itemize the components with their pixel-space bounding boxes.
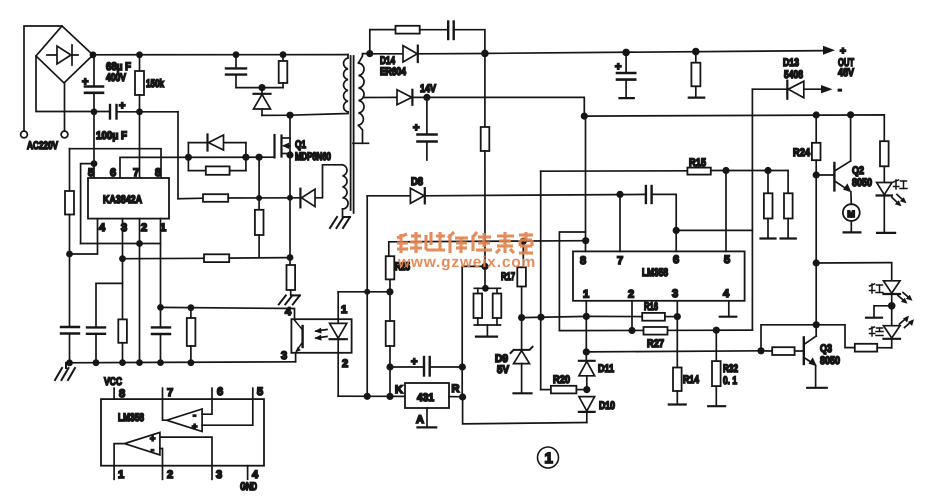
wire U3 pin3 stub (211, 466, 213, 480)
node pin6 branch (673, 227, 680, 234)
transformer primary winding (344, 58, 348, 112)
resistor R20 (541, 386, 587, 394)
label red2 (870, 284, 884, 293)
wire U3 pin1 stub (113, 466, 115, 480)
wire R26 to K node (389, 346, 391, 396)
svg-text:R16: R16 (644, 301, 658, 313)
resistor divider a (761, 171, 776, 239)
svg-text:1: 1 (583, 289, 589, 301)
svg-text:2: 2 (167, 469, 173, 481)
transformer T1 core (351, 56, 354, 213)
wire pin3 branch to cap (96, 283, 123, 327)
arrows led green (900, 316, 915, 328)
wire bridge left vertex down to DC- rail (36, 56, 109, 112)
node HV rail 150k (136, 51, 143, 58)
node line A pin8 (582, 237, 589, 244)
diode 14V rectifier (364, 90, 412, 105)
svg-text:R: R (452, 383, 460, 395)
svg-text:+: + (840, 46, 846, 57)
capacitor at x96 (87, 327, 105, 362)
opto arrows (314, 328, 327, 341)
wire bottom ground rail (66, 362, 296, 363)
svg-text:D8: D8 (411, 176, 423, 188)
arrows led red2 (898, 293, 913, 304)
wire D8 to pin7 line (425, 194, 646, 195)
wire green resistor right (877, 347, 892, 349)
wire K rail (338, 395, 405, 397)
node Q2 collector rail (847, 111, 854, 118)
svg-text:6: 6 (110, 167, 116, 179)
motor M (843, 204, 860, 221)
node K rail x390 (386, 393, 393, 400)
wire secondary snubber up (370, 30, 396, 54)
wire opto pin1 line (338, 291, 390, 293)
svg-text:6: 6 (217, 386, 223, 398)
node x485 bottom (481, 263, 488, 270)
wire y325 left (761, 325, 816, 351)
svg-text:-: - (193, 410, 196, 420)
wire U3 pin4 stub (247, 466, 249, 480)
transistor Q1 MDP8N60 (275, 135, 291, 157)
wire U3 pin6 stub (211, 388, 213, 399)
wire secondary bottom bar (353, 142, 369, 144)
diode clamp zener (254, 88, 271, 116)
resistor green led (855, 344, 877, 352)
wire opto pin1 up (337, 292, 339, 319)
resistor secondary snubber (396, 26, 420, 34)
svg-text:D13: D13 (783, 57, 799, 69)
wire rail y258 left part (123, 257, 205, 259)
resistor q3 base (761, 347, 804, 355)
AC terminal 1 (21, 131, 28, 138)
node rail x69 (66, 359, 73, 366)
wire pin5 stub (725, 171, 727, 252)
node pin5/vcc L (91, 160, 98, 167)
diode D8 (367, 188, 425, 203)
svg-text:+: + (413, 122, 419, 134)
svg-text:AC220V: AC220V (27, 140, 58, 152)
resistor R25 (386, 256, 395, 279)
svg-text:LM358: LM358 (642, 267, 668, 279)
node K rail x367 (364, 393, 371, 400)
node current rail x259 (256, 195, 262, 201)
svg-text:6: 6 (673, 254, 679, 266)
resistor 150k (135, 55, 144, 112)
svg-text:www.gzweix.com: www.gzweix.com (397, 254, 536, 271)
svg-text:8: 8 (580, 255, 586, 267)
svg-text:8: 8 (155, 167, 161, 179)
capacitor 431 comp (390, 357, 462, 376)
node x541 y317 (537, 314, 544, 321)
node snubber junction (258, 84, 265, 91)
ic 431 shunt regulator (405, 383, 449, 408)
node rail x122 (119, 359, 126, 366)
label circled 1 (538, 447, 559, 468)
node pin2 y243 (136, 240, 143, 247)
wire y330 line (559, 329, 752, 331)
wire D10 return (463, 397, 587, 424)
node rail x191 (188, 359, 195, 366)
svg-text:+: + (192, 422, 197, 432)
node R32 top (713, 327, 720, 334)
wire snubber mid (420, 29, 449, 31)
node red2 green junction (888, 302, 896, 310)
wire snubber right down (454, 30, 485, 54)
node pin5 top (722, 167, 729, 174)
node vcc rail R24 (813, 111, 820, 118)
wire cap to pin6 (652, 194, 677, 251)
capacitor output filter (617, 52, 635, 98)
wire current rail right (228, 197, 300, 199)
wire opto pin2 down (337, 353, 339, 396)
diode D11 (579, 361, 595, 390)
wire junction stub ground (866, 306, 892, 318)
svg-text:2: 2 (628, 288, 634, 300)
svg-text:100μ F: 100μ F (96, 130, 127, 142)
node main out rail left (481, 50, 489, 58)
wire pin3 stub (676, 301, 678, 368)
wire x541 vertical (540, 171, 542, 389)
svg-text:2: 2 (342, 358, 348, 370)
node snubber cap rail (233, 51, 240, 58)
node bridge+ (90, 51, 97, 58)
capacitor at x160 (152, 327, 170, 362)
wire feedback top (315, 165, 342, 198)
diode feedback rectifier (300, 189, 315, 208)
resistor on pin3 line (118, 283, 127, 362)
svg-text:400V: 400V (106, 72, 127, 84)
svg-text:4: 4 (252, 469, 259, 481)
resistor R16 (586, 313, 677, 321)
resistor gate-source divider x259 (255, 157, 264, 257)
wire pin7 vertical (139, 112, 141, 178)
diode D14 ER604 (370, 46, 485, 62)
op-amp U3a (163, 399, 253, 431)
node parallel pair top (482, 285, 489, 292)
diode D9 5V zener (511, 318, 533, 394)
led red2 (884, 281, 901, 326)
resistor R15 (541, 168, 788, 175)
wire R25 to R26 (389, 279, 391, 321)
svg-text:ER604: ER604 (380, 66, 407, 78)
svg-text:GND: GND (240, 481, 257, 493)
resistor current rail (203, 194, 228, 202)
svg-text:KA3842A: KA3842A (103, 194, 142, 206)
wire motor ground (844, 221, 861, 232)
svg-text:4: 4 (285, 306, 292, 318)
svg-text:+: + (615, 61, 621, 73)
node D11 top line (583, 348, 590, 355)
wire bridge bottom vertex to AC terminal 2 (64, 83, 66, 131)
wire KA pin1 stub down (160, 219, 162, 327)
svg-text:D10: D10 (599, 400, 615, 412)
node Q1 drain (286, 112, 293, 119)
wire pin5 vertical (93, 112, 95, 178)
svg-text:5V: 5V (497, 364, 510, 376)
resistor snubber x283 (262, 55, 287, 88)
node 14V cap (423, 94, 430, 101)
resistor R24 (812, 115, 821, 175)
resistor feed x485 (481, 53, 490, 288)
svg-text:VCC: VCC (104, 376, 122, 388)
ground Q1 source (279, 295, 300, 304)
svg-text:LM358: LM358 (118, 412, 144, 424)
node D10 D11 R20 (583, 386, 590, 393)
svg-text:0. 1: 0. 1 (723, 375, 737, 387)
svg-text:D11: D11 (598, 363, 614, 375)
node 431 R pin (459, 393, 466, 400)
arrow out plus (823, 46, 835, 55)
op-amp U3b (114, 432, 212, 465)
resistor R32 (708, 330, 725, 406)
wire drain rail to primary bottom (262, 112, 348, 115)
svg-text:5: 5 (257, 386, 263, 398)
node sample vertical (364, 289, 370, 295)
wire Q2 collector up (850, 115, 852, 161)
svg-text:Q2: Q2 (852, 165, 864, 177)
transformer secondary winding (359, 63, 365, 125)
svg-text:+: + (150, 434, 155, 444)
svg-text:R20: R20 (553, 374, 570, 386)
arrows led red1 (892, 195, 907, 207)
svg-text:8050: 8050 (820, 355, 840, 367)
svg-text:A: A (416, 414, 424, 426)
node opto feed (386, 288, 393, 295)
wire sample vertical x367 (366, 196, 368, 396)
led green (884, 326, 901, 348)
capacitor secondary snubber (448, 22, 454, 40)
transformer feedback winding (343, 165, 349, 209)
node gate divider top (256, 154, 263, 161)
svg-text:+: + (119, 100, 125, 112)
resistor source sense (287, 265, 296, 295)
capacitor feedback pin6 (646, 186, 652, 203)
wire pin1 stub chain (585, 301, 587, 361)
svg-text:7: 7 (617, 255, 623, 267)
svg-text:-: - (838, 84, 842, 96)
node out bleeder (692, 48, 700, 56)
wire pin8 branch left (559, 232, 585, 331)
wire pin7 stub (619, 194, 621, 251)
svg-text:MDP8N60: MDP8N60 (295, 151, 331, 163)
resistor pair parallel (474, 288, 502, 336)
svg-text:3: 3 (281, 350, 287, 362)
resistor divider b (781, 171, 796, 239)
node pin7 (616, 191, 623, 198)
svg-text:+: + (411, 356, 417, 368)
node pin1 y316 (583, 313, 590, 320)
svg-text:5: 5 (88, 167, 94, 179)
svg-text:-: - (151, 445, 154, 455)
resistor R17 (517, 241, 526, 317)
diode D13 5408 (752, 81, 822, 99)
svg-text:2: 2 (141, 222, 147, 234)
svg-text:431: 431 (417, 392, 434, 404)
ic opto coupler (291, 319, 351, 353)
wire primary top (347, 55, 349, 58)
wire bridge top vertex to AC terminal 1 (24, 26, 62, 131)
node secondary top (366, 50, 373, 57)
node pin3 R16 (674, 313, 681, 320)
node out cap (622, 49, 630, 57)
wire pin8 feed y148.7 (70, 149, 162, 178)
wire pin6 to D13 drop (676, 229, 752, 231)
svg-text:R27: R27 (647, 338, 664, 350)
wire 431 A pin (418, 408, 437, 427)
resistor red led1 (880, 141, 889, 182)
ic KA3842A (88, 178, 169, 219)
bridge rectifier (36, 26, 93, 83)
svg-text:3: 3 (216, 469, 222, 481)
wire pin8 supply vertical (585, 116, 587, 251)
wire KA pin3 stub (122, 219, 124, 284)
wire DC- rail right of C2 (117, 111, 178, 113)
resistor startup x69 (65, 149, 74, 327)
wire KA pin2 stub down (139, 219, 141, 363)
node snubber rail (280, 51, 287, 58)
node resistor x191 top (188, 304, 195, 311)
svg-text:1: 1 (118, 469, 124, 481)
wire 431 R pin (449, 396, 463, 398)
label red1 (894, 180, 908, 189)
resistor x191 (187, 308, 196, 363)
wire Q1 source down (289, 155, 291, 265)
wire U3 pin5 stub (252, 388, 254, 399)
node pin4 line x69 (66, 251, 73, 258)
node rail x96 (93, 359, 100, 366)
wire 14V rail (412, 97, 584, 116)
capacitor C1 68uF400V (85, 55, 103, 112)
opto phototransistor (295, 320, 303, 352)
resistor R27 (644, 327, 668, 335)
svg-text:1: 1 (341, 304, 347, 316)
svg-text:8: 8 (119, 388, 125, 400)
node R17 top (520, 238, 527, 245)
wire U3 pin2 stub (162, 466, 164, 480)
node q3 collector (813, 321, 820, 328)
wire rail y243 (81, 243, 161, 245)
node pin1 fb rail (157, 304, 164, 311)
arrow out minus (821, 85, 833, 93)
wire red2 feed line (816, 263, 892, 281)
wire line A (389, 241, 586, 242)
svg-text:M: M (847, 209, 855, 219)
svg-text:1: 1 (545, 450, 553, 467)
wire U3 pin7 stub (162, 388, 164, 399)
node divider top (764, 167, 771, 174)
wire L to lower rail (81, 164, 94, 244)
opto led (330, 319, 347, 353)
wire pin4 line (70, 219, 98, 254)
node pin2 y330 (628, 327, 635, 334)
node DC- / pin5 branch (91, 108, 98, 115)
wire current rail y198 (178, 197, 203, 200)
label green (870, 327, 884, 336)
wire U3 pin8 stub (113, 388, 115, 399)
diode gate speedup (208, 135, 224, 151)
wire D13 drop x752 (716, 89, 752, 330)
wire KA pin6 gate drive (120, 157, 275, 178)
resistor below R25 (386, 321, 395, 346)
node gate net right (242, 154, 249, 161)
node red2 feed (813, 259, 820, 266)
led red1 (877, 183, 896, 233)
svg-text:3: 3 (672, 288, 678, 300)
wire vcc rail y115 (584, 115, 884, 141)
resistor rail y258 (204, 254, 229, 262)
svg-text:Q1: Q1 (295, 139, 306, 151)
svg-text:4: 4 (723, 288, 730, 300)
wire q3 collector to green resistor (816, 325, 855, 348)
node rail x139 (136, 359, 143, 366)
wire Q1 drain up (289, 115, 291, 138)
resistor bleeder (689, 52, 704, 98)
AC terminal 2 (61, 131, 68, 138)
svg-text:4: 4 (99, 222, 106, 234)
svg-text:5: 5 (724, 254, 730, 266)
svg-text:R24: R24 (793, 147, 811, 159)
capacitor C2 100uF (110, 105, 117, 119)
svg-text:Q3: Q3 (820, 343, 832, 355)
svg-text:+: + (82, 76, 88, 88)
svg-text:K: K (395, 384, 403, 396)
wire x462 vertical (462, 266, 485, 397)
ic LM358 U3 pinout (101, 399, 264, 466)
wire q3 base line (586, 351, 761, 352)
capacitor at x69 (61, 327, 79, 363)
wire pin4 stub (720, 301, 737, 317)
diode D10 (579, 397, 595, 423)
wire secondary bottom (359, 125, 363, 143)
wire q3 collector vertical (815, 175, 817, 331)
node q3 base line (757, 347, 764, 354)
wire Q2 emitter to motor (850, 192, 852, 205)
node Q2 base (813, 171, 820, 178)
svg-text:R32: R32 (723, 363, 738, 375)
ground main rail (55, 363, 75, 380)
capacitor 14V filter (418, 97, 437, 160)
node cap431 left (386, 363, 393, 370)
node Q1 source (286, 151, 293, 158)
node source rail258 (287, 254, 294, 261)
svg-text:150k: 150k (146, 78, 165, 90)
transistor Q3 8050 (804, 331, 827, 388)
svg-text:5408: 5408 (784, 69, 803, 81)
svg-text:R14: R14 (683, 374, 700, 386)
watermark (397, 232, 536, 271)
wire rail y258 right part (229, 257, 290, 260)
svg-text:8050: 8050 (852, 177, 872, 189)
wire secondary top tap (359, 54, 370, 63)
svg-text:7: 7 (167, 387, 173, 399)
wire pin2 stub (631, 301, 633, 331)
wire main out rail (485, 51, 826, 54)
node 14V corner (581, 113, 588, 120)
node pin3 rail (119, 255, 126, 262)
node R17 bottom (518, 314, 525, 321)
transistor Q2 8050 (816, 161, 851, 192)
node 150k bottom (136, 108, 143, 115)
svg-text:48V: 48V (838, 67, 855, 79)
wire x178 drop to current rail (177, 112, 179, 199)
resistor R14 (669, 368, 686, 405)
node rail x160 (157, 359, 164, 366)
svg-text:R17: R17 (501, 271, 515, 283)
ic LM358 U2 (573, 251, 745, 300)
node source current rail (287, 195, 293, 201)
wire R25 corner (388, 242, 390, 256)
svg-text:14V: 14V (420, 83, 437, 95)
